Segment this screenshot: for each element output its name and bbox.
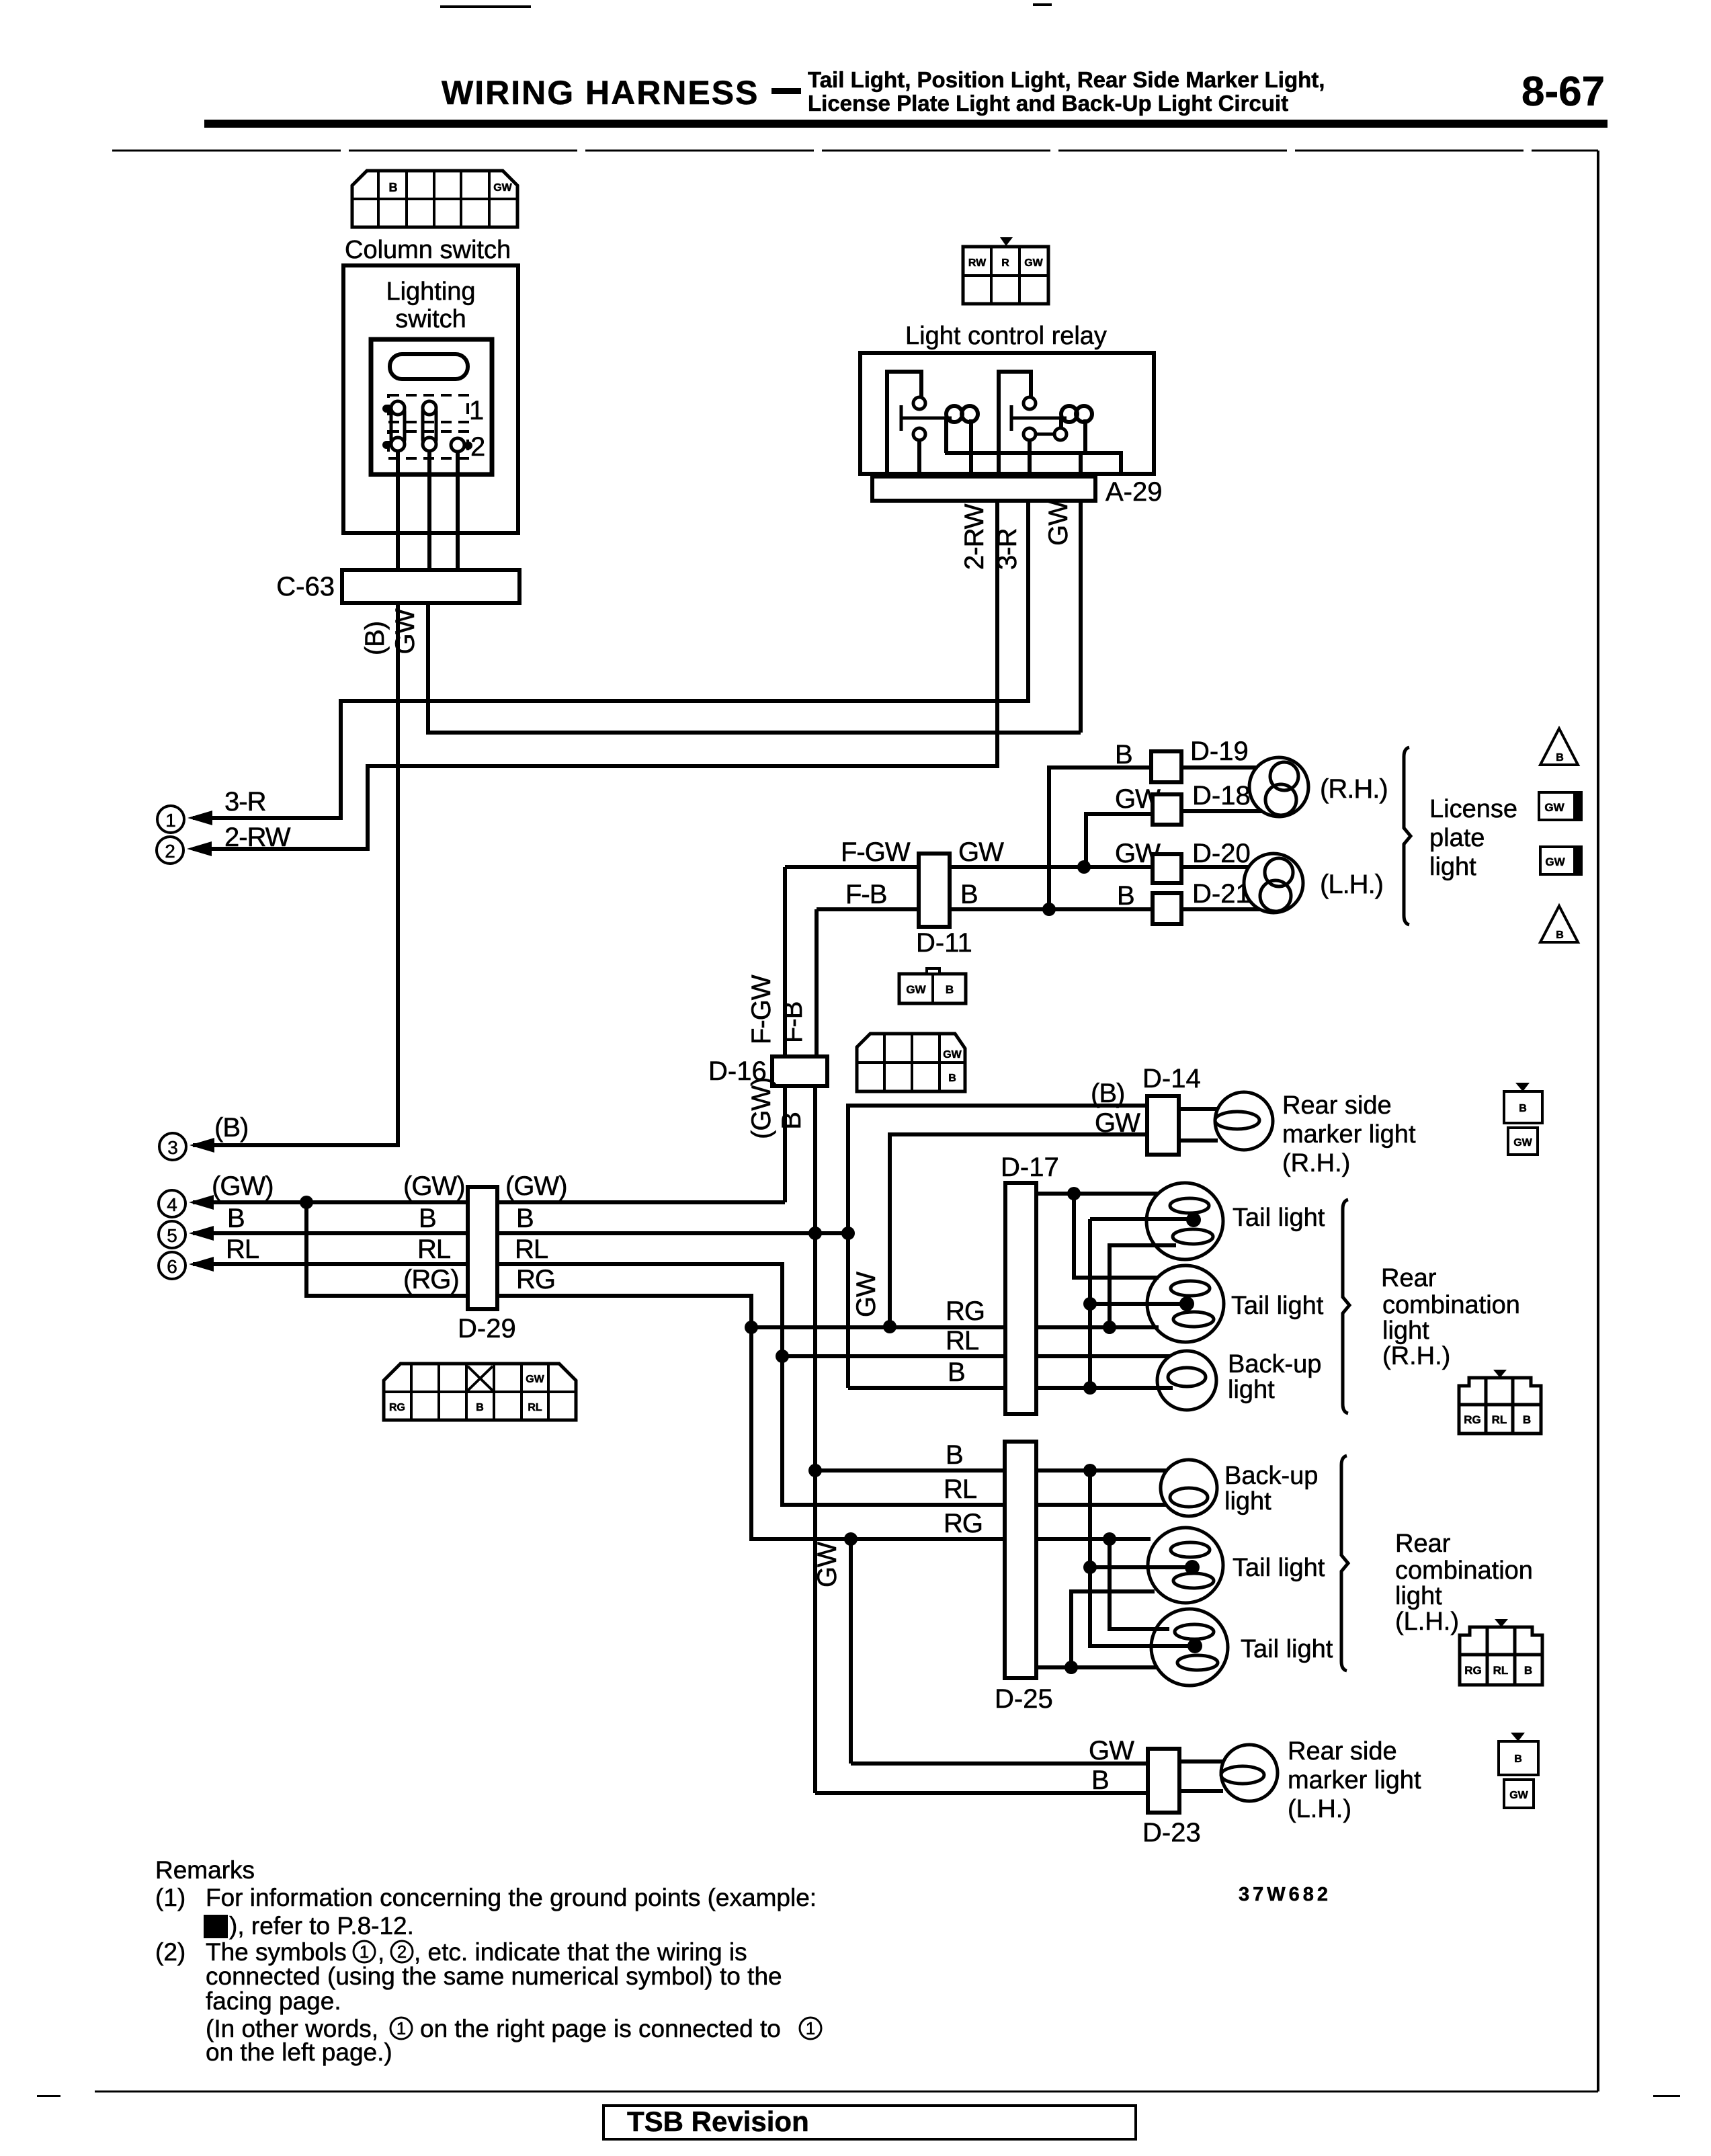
- wire B to D-23: [815, 1791, 1148, 1795]
- connector D-20: [1153, 854, 1181, 883]
- svg-text:B: B: [946, 983, 954, 996]
- relay 1 frame wire: [887, 372, 921, 474]
- svg-text:B: B: [948, 1358, 965, 1387]
- tail bulb RH 2: [1147, 1266, 1224, 1342]
- wire 4 (GW): [193, 1200, 785, 1204]
- connector A-29: [872, 476, 1095, 501]
- license plate bulb LH: [1244, 854, 1303, 913]
- svg-text:RW: RW: [968, 257, 987, 269]
- svg-text:light: light: [1382, 1317, 1429, 1345]
- svg-text:37W682: 37W682: [1239, 1884, 1331, 1905]
- svg-text:connected (using the same nume: connected (using the same numerical symb…: [206, 1962, 782, 1990]
- svg-text:Lighting: Lighting: [386, 278, 475, 306]
- svg-text:RG: RG: [1464, 1664, 1482, 1677]
- svg-text:3: 3: [167, 1137, 178, 1158]
- svg-text:D-11: D-11: [916, 928, 972, 958]
- svg-text:1: 1: [469, 396, 483, 425]
- svg-text:6: 6: [167, 1256, 177, 1277]
- wire GW to D-18: [1086, 814, 1153, 867]
- svg-text:B: B: [1524, 1664, 1532, 1677]
- svg-text:2-RW: 2-RW: [224, 823, 291, 852]
- wire 5 B: [193, 1231, 848, 1235]
- pin box GW (LH marker): [1504, 1780, 1534, 1808]
- svg-text:RG: RG: [516, 1265, 555, 1294]
- 7-cell connector symbol lower left: [384, 1364, 576, 1420]
- svg-text:B: B: [960, 880, 978, 909]
- svg-text:RL: RL: [944, 1475, 976, 1504]
- wire B into D-17: [848, 1386, 1005, 1390]
- page frame top: [112, 150, 1598, 152]
- connector D-17: [1005, 1183, 1036, 1414]
- wire RG into D-17: [751, 1325, 1005, 1329]
- svg-text:D-21: D-21: [1192, 879, 1251, 909]
- svg-text:Back-up: Back-up: [1228, 1350, 1321, 1378]
- svg-text:F-B: F-B: [845, 880, 886, 909]
- svg-text:License Plate Light and Back-U: License Plate Light and Back-Up Light Ci…: [808, 91, 1288, 116]
- wire RL out of D-17: [1036, 1354, 1170, 1358]
- svg-text:(B): (B): [214, 1113, 248, 1143]
- wire (RG) branch: [306, 1202, 751, 1327]
- svg-text:Light control relay: Light control relay: [905, 322, 1107, 350]
- svg-text:GW: GW: [526, 1374, 544, 1385]
- arrow 4: [159, 1190, 214, 1217]
- wire RG out of D-25: [1036, 1537, 1151, 1541]
- brace LH combo: [1341, 1456, 1348, 1671]
- svg-text:3-R: 3-R: [993, 528, 1022, 570]
- svg-text:GW: GW: [390, 608, 420, 654]
- junction dot RL chain: [776, 1350, 789, 1363]
- connector D-14: [1147, 1096, 1179, 1155]
- connector grid above relay: [963, 237, 1048, 304]
- wire B out of D-25: [1036, 1468, 1167, 1473]
- svg-text:(GW): (GW): [747, 1077, 776, 1139]
- svg-text:combination: combination: [1382, 1291, 1520, 1319]
- wires D-23 to bulb: [1179, 1761, 1223, 1791]
- svg-text:(L.H.): (L.H.): [1288, 1795, 1351, 1823]
- svg-text:Column switch: Column switch: [345, 236, 511, 264]
- switch contact circles row 1: [391, 401, 405, 415]
- svg-text:), refer to P.8-12.: ), refer to P.8-12.: [229, 1912, 414, 1940]
- wire tail feed to bulb1 lower: [1071, 1591, 1155, 1667]
- stray top marks: [440, 5, 531, 8]
- relay 2 armature: [1011, 405, 1067, 431]
- switch S1 inner box: [371, 339, 492, 474]
- svg-text:(2): (2): [155, 1938, 185, 1966]
- connector C-63: [342, 570, 519, 603]
- connector RG RL B (LH): [1460, 1619, 1542, 1685]
- wire D-17 tail feed: [1036, 1192, 1158, 1196]
- svg-text:F-GW: F-GW: [841, 837, 911, 867]
- wire bulb2 center: [1090, 1302, 1187, 1306]
- svg-text:Rear side: Rear side: [1288, 1737, 1397, 1766]
- junction dot B spur: [1042, 903, 1056, 916]
- svg-text:GW: GW: [1095, 1108, 1140, 1138]
- svg-text:D-23: D-23: [1142, 1818, 1201, 1848]
- connector D-11: [919, 854, 950, 927]
- pin box GW lower: [1540, 847, 1581, 874]
- wires connectors to LH license bulb: [1181, 867, 1260, 909]
- arrow 1: [157, 806, 212, 833]
- relay 2 upper contact: [1024, 397, 1036, 409]
- junction dots on B bus: [808, 1227, 822, 1240]
- svg-text:8-67: 8-67: [1521, 69, 1605, 115]
- pin box B with arrow (RH marker): [1504, 1083, 1542, 1123]
- svg-text:B: B: [1556, 752, 1564, 763]
- wire B into D-25: [815, 1468, 1005, 1473]
- svg-text:B: B: [777, 1112, 806, 1130]
- header rule: [204, 120, 1608, 128]
- svg-text:(R.H.): (R.H.): [1382, 1342, 1450, 1370]
- svg-text:combination: combination: [1395, 1557, 1533, 1585]
- relay 2 coil: [1061, 406, 1077, 422]
- marker bulb LH: [1221, 1745, 1278, 1801]
- connector D-18: [1153, 794, 1181, 825]
- svg-text:(B): (B): [360, 622, 390, 655]
- svg-text:switch: switch: [395, 305, 466, 333]
- pin box GW (RH marker): [1508, 1128, 1538, 1155]
- svg-text:facing page.: facing page.: [206, 1987, 341, 2015]
- svg-text:RL: RL: [1492, 1413, 1507, 1426]
- junction dot GW join: [883, 1320, 896, 1333]
- connector RG RL B (RH): [1459, 1370, 1541, 1434]
- relay 2 lower contact wire: [1028, 440, 1032, 474]
- svg-text:B: B: [1523, 1413, 1531, 1426]
- svg-text:B: B: [227, 1204, 245, 1233]
- wire from switch pin 1: [396, 451, 400, 570]
- junction dot GW spur: [1077, 860, 1091, 874]
- backup bulb LH: [1161, 1460, 1217, 1516]
- svg-text:(GW): (GW): [505, 1171, 567, 1201]
- tail bulb LH 2: [1151, 1609, 1228, 1686]
- svg-text:Tail light: Tail light: [1231, 1292, 1324, 1320]
- svg-text:D-19: D-19: [1190, 737, 1249, 766]
- svg-text:RG: RG: [944, 1509, 983, 1538]
- svg-text:(R.H.): (R.H.): [1282, 1149, 1350, 1177]
- svg-text:B: B: [946, 1440, 963, 1470]
- wire RG into D-25: [751, 1327, 1005, 1539]
- svg-text:GW: GW: [1544, 801, 1564, 814]
- pin box B with arrow (LH marker): [1499, 1733, 1538, 1775]
- svg-text:D-20: D-20: [1192, 839, 1251, 868]
- ground triangle top: [1540, 729, 1578, 765]
- svg-text:RL: RL: [515, 1235, 548, 1264]
- svg-text:Tail light: Tail light: [1233, 1554, 1325, 1582]
- wire B below D-16: [813, 1086, 817, 1793]
- svg-text:(GW): (GW): [403, 1171, 465, 1201]
- license plate bulb RH: [1249, 757, 1308, 817]
- svg-text:RL: RL: [417, 1235, 450, 1264]
- wire bulb1 lower filament: [1110, 1245, 1176, 1327]
- wire RL into D-25: [782, 1356, 1005, 1505]
- wire GW to D-23: [851, 1761, 1148, 1766]
- switch contact circles row 2: [391, 438, 405, 451]
- arrow 3: [159, 1133, 214, 1160]
- svg-text:B: B: [1514, 1753, 1522, 1765]
- svg-text:B: B: [948, 1073, 956, 1084]
- license bracket: [1404, 747, 1411, 925]
- wire (GW) below D-16: [783, 1086, 787, 1202]
- wire F-B / B line through D-11: [817, 907, 1153, 911]
- tail bulb RH 1: [1146, 1183, 1223, 1259]
- svg-text:1: 1: [165, 810, 176, 831]
- svg-text:on the left page.): on the left page.): [206, 2038, 392, 2066]
- svg-text:(RG): (RG): [403, 1265, 459, 1294]
- svg-text:Back-up: Back-up: [1224, 1462, 1318, 1490]
- svg-text:B: B: [476, 1402, 484, 1413]
- svg-text:A-29: A-29: [1105, 477, 1163, 507]
- junction dot tail feed: [1067, 1187, 1081, 1200]
- page frame right: [1597, 151, 1599, 2091]
- relay 1 armature: [901, 405, 952, 431]
- svg-text:plate: plate: [1429, 824, 1485, 852]
- wire B to D-19: [1049, 768, 1151, 909]
- wires connectors to RH license bulb: [1181, 768, 1262, 811]
- svg-text:TSB Revision: TSB Revision: [627, 2106, 809, 2137]
- svg-text:B: B: [1115, 740, 1132, 770]
- switch position 1 dashed outline: [388, 395, 468, 422]
- svg-text:GW: GW: [1089, 1736, 1134, 1766]
- svg-text:RL: RL: [226, 1235, 259, 1264]
- relay 1 coil: [946, 406, 962, 422]
- svg-text:The symbols: The symbols: [206, 1938, 347, 1966]
- svg-text:1: 1: [397, 2018, 406, 2038]
- svg-text:2: 2: [165, 841, 175, 862]
- svg-text:GW: GW: [812, 1542, 842, 1587]
- svg-text:Rear side: Rear side: [1282, 1091, 1392, 1120]
- wire B out of D-17: [1036, 1386, 1173, 1390]
- svg-text:3-R: 3-R: [224, 787, 266, 817]
- wire GW below C-63: [428, 603, 1081, 733]
- 6-cell connector symbol near D-11: [857, 1034, 965, 1091]
- tail bulb LH 1: [1148, 1528, 1223, 1603]
- svg-text:GW: GW: [851, 1272, 881, 1317]
- svg-text:Tail light: Tail light: [1241, 1635, 1333, 1663]
- connector D-16: [772, 1056, 827, 1086]
- wire from switch pin 2: [427, 451, 431, 570]
- relay 2 frame wire: [999, 372, 1031, 474]
- svg-text:,: ,: [378, 1938, 384, 1966]
- svg-text:B: B: [1091, 1766, 1109, 1795]
- relay 1 lower contact: [913, 428, 925, 440]
- svg-text:RG: RG: [1464, 1413, 1481, 1426]
- brace RH combo: [1343, 1200, 1349, 1413]
- svg-text:on the right page is connected: on the right page is connected to: [420, 2015, 781, 2042]
- TSB Revision box: [603, 2106, 1136, 2139]
- connector D-29: [468, 1187, 497, 1309]
- connector D-19: [1151, 751, 1181, 782]
- connector D-23: [1148, 1749, 1179, 1813]
- page frame bottom: [95, 2091, 1598, 2093]
- svg-text:(1): (1): [155, 1884, 185, 1911]
- svg-text:1: 1: [211, 1917, 220, 1938]
- pin box GW upper: [1539, 792, 1581, 820]
- arrow 6: [159, 1252, 214, 1279]
- svg-text:D-29: D-29: [458, 1314, 516, 1343]
- wire 2-RW from relay: [193, 501, 997, 849]
- arrow 5: [159, 1221, 214, 1248]
- svg-text:4: 4: [167, 1194, 177, 1215]
- wire center ground chain LH: [1090, 1470, 1195, 1646]
- svg-text:B: B: [1519, 1103, 1527, 1114]
- svg-text:marker light: marker light: [1282, 1120, 1416, 1149]
- svg-text:(GW): (GW): [212, 1171, 274, 1201]
- svg-text:F-B: F-B: [778, 1002, 808, 1043]
- 2-pin connector GW B symbol: [899, 968, 966, 1003]
- svg-text:5: 5: [167, 1225, 177, 1246]
- junction dot RG chain: [745, 1321, 758, 1334]
- relay box A-29: [860, 353, 1154, 474]
- switch knob slot: [390, 354, 468, 379]
- svg-text:GW: GW: [1024, 257, 1043, 269]
- switch contact bridge left: [391, 405, 405, 446]
- connector D-25: [1005, 1442, 1036, 1678]
- title dash: [771, 88, 801, 94]
- wire GW from relay: [1079, 501, 1083, 733]
- ground triangle bottom: [1540, 906, 1578, 942]
- svg-text:WIRING HARNESS: WIRING HARNESS: [442, 74, 759, 112]
- svg-text:GW: GW: [958, 837, 1004, 867]
- wire bulb1 center: [1090, 1217, 1194, 1221]
- wire (B) to D-14: [848, 1106, 1147, 1388]
- svg-text:B: B: [1117, 881, 1134, 911]
- svg-text:For information concerning the: For information concerning the ground po…: [206, 1884, 817, 1911]
- wire F-GW down to D-16: [783, 867, 787, 1056]
- svg-text:light: light: [1395, 1582, 1442, 1610]
- svg-text:C-63: C-63: [276, 572, 335, 602]
- relay 1 lower contact wire: [917, 440, 921, 474]
- svg-text:RL: RL: [946, 1326, 978, 1356]
- svg-text:1: 1: [806, 2018, 815, 2038]
- junction dot GW takeoff LH: [844, 1532, 858, 1546]
- svg-text:D-17: D-17: [1001, 1153, 1059, 1182]
- svg-text:2: 2: [470, 432, 485, 462]
- svg-text:F-GW: F-GW: [747, 975, 776, 1044]
- wire tail feed to bulb2: [1074, 1194, 1159, 1278]
- marker bulb RH: [1215, 1092, 1273, 1150]
- svg-text:Rear: Rear: [1395, 1530, 1451, 1558]
- svg-text:GW: GW: [906, 983, 926, 996]
- connector grid above column switch: [352, 171, 517, 227]
- wire 3-R from relay: [193, 501, 1028, 818]
- svg-text:B: B: [516, 1204, 534, 1233]
- svg-text:RL: RL: [528, 1402, 542, 1413]
- svg-text:2: 2: [397, 1942, 407, 1962]
- svg-text:B: B: [419, 1204, 436, 1233]
- wires D-14 to bulb: [1179, 1109, 1218, 1141]
- svg-text:D-18: D-18: [1192, 781, 1251, 811]
- lighting switch box: [343, 265, 518, 533]
- backup bulb RH: [1157, 1351, 1216, 1410]
- svg-text:Tail light: Tail light: [1233, 1204, 1325, 1232]
- svg-text:(B): (B): [1091, 1079, 1124, 1108]
- wire B below C-63: [193, 603, 398, 1145]
- junction dot on (GW): [300, 1196, 313, 1209]
- svg-text:Tail Light, Position Light, Re: Tail Light, Position Light, Rear Side Ma…: [808, 67, 1325, 92]
- wire from switch pin 3: [456, 452, 460, 570]
- wire RL out of D-25: [1036, 1503, 1166, 1507]
- wire center ground chain: [1088, 1219, 1092, 1388]
- switch position 2 dashed outline: [388, 431, 468, 458]
- arrow 2: [157, 837, 212, 864]
- svg-text:GW: GW: [493, 182, 512, 194]
- wire F-GW / GW line through D-11: [785, 865, 1153, 869]
- svg-text:B: B: [1556, 929, 1564, 941]
- relay internal bus wire: [945, 453, 1121, 474]
- svg-text:light: light: [1224, 1487, 1271, 1516]
- svg-text:(R.H.): (R.H.): [1320, 774, 1388, 804]
- svg-text:D-25: D-25: [995, 1684, 1053, 1714]
- wire GW down to D-23: [849, 1539, 853, 1764]
- svg-text:RG: RG: [389, 1402, 405, 1413]
- svg-text:License: License: [1429, 795, 1517, 823]
- svg-text:light: light: [1228, 1376, 1275, 1404]
- svg-text:B: B: [389, 181, 398, 194]
- wire D-25 tail feed bottom: [1036, 1665, 1157, 1669]
- svg-text:R: R: [1001, 257, 1009, 269]
- svg-text:(L.H.): (L.H.): [1320, 870, 1383, 899]
- svg-text:GW: GW: [1545, 856, 1565, 868]
- REMARKS: [155, 1856, 1331, 2066]
- wire RG out of D-17: [1036, 1325, 1159, 1329]
- svg-text:GW: GW: [1044, 500, 1073, 546]
- relay 2 lower contacts: [1024, 428, 1036, 440]
- svg-text:RL: RL: [1493, 1664, 1509, 1677]
- svg-text:D-14: D-14: [1142, 1064, 1201, 1093]
- svg-text:light: light: [1429, 853, 1476, 881]
- svg-text:marker light: marker light: [1288, 1766, 1421, 1794]
- wire bulb1 center LH: [1090, 1565, 1192, 1569]
- svg-text:GW: GW: [1509, 1790, 1528, 1801]
- svg-text:GW: GW: [1513, 1137, 1532, 1149]
- svg-text:Rear: Rear: [1381, 1264, 1437, 1292]
- connector D-21: [1153, 893, 1181, 924]
- wire GW to D-14: [890, 1134, 1147, 1327]
- svg-text:(L.H.): (L.H.): [1395, 1608, 1459, 1636]
- svg-text:Remarks: Remarks: [155, 1856, 255, 1884]
- wire 6 RL: [193, 1264, 782, 1356]
- svg-text:RG: RG: [946, 1296, 985, 1326]
- svg-text:1: 1: [360, 1942, 369, 1962]
- relay 1 upper contact: [913, 397, 925, 409]
- wire RG to bulb2 upper filament: [1110, 1539, 1169, 1629]
- switch contact bridge middle: [423, 405, 436, 446]
- svg-text:, etc. indicate that the wirin: , etc. indicate that the wiring is: [414, 1938, 747, 1966]
- wire F-B down to D-16: [815, 909, 819, 1056]
- wire RL into D-17: [782, 1354, 1005, 1358]
- svg-text:2-RW: 2-RW: [960, 503, 989, 570]
- svg-text:GW: GW: [943, 1049, 962, 1061]
